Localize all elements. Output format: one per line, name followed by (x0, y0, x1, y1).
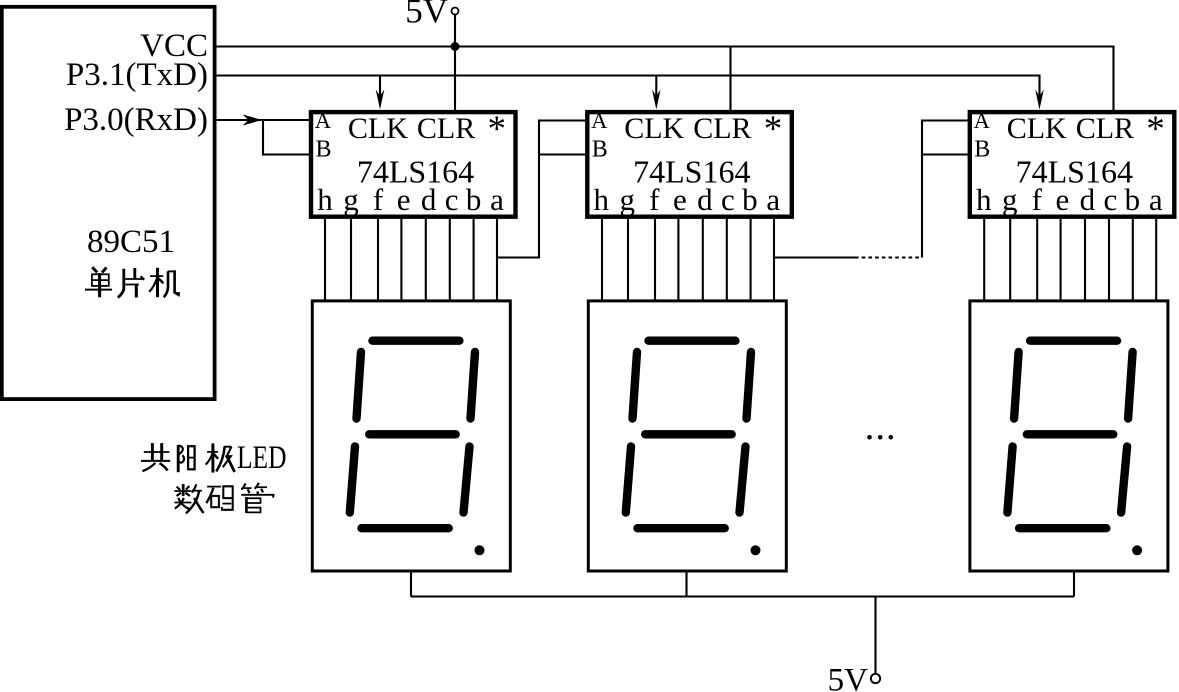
junction 5V/VCC dot (451, 42, 460, 51)
wire U3 output g to display (1009, 218, 1011, 300)
wire 5V top vertical (454, 15, 456, 111)
shift register U1 74LS164 (311, 108, 516, 217)
wire U2 output d to display (702, 218, 704, 300)
wire U2 output b to display (750, 218, 752, 300)
wire U3 output h to display (983, 218, 985, 300)
wire cascade stub to U3 B input (922, 153, 970, 155)
shift register U3 74LS164 (970, 108, 1175, 217)
wire U1 output d to display (425, 218, 427, 300)
hanzi guan (管) of 数码管 (241, 483, 273, 513)
wire U1 output b to display (473, 218, 475, 300)
wire display1 common anode tap (410, 571, 412, 597)
wire P3.1 TxD horizontal (215, 76, 1040, 99)
wire cascade vertical to U3 A input (922, 121, 970, 258)
wire CLR U2 branch (729, 47, 731, 112)
svg-text:P3.0(RxD): P3.0(RxD) (64, 102, 208, 138)
MCU 89C51 box (2, 7, 215, 399)
hanzi yang (阳) of 共阳极LED (178, 445, 194, 472)
terminal 5V top circle (452, 8, 459, 15)
wire display3 common anode tap (1073, 571, 1075, 597)
wire U2 output a to display (773, 218, 775, 300)
wire cascade U1 a to U2 A/B (497, 121, 587, 258)
svg-text:89C51: 89C51 (87, 224, 175, 260)
hanzi gong (共) of 共阳极LED (141, 443, 170, 471)
wire U3 output e to display (1060, 218, 1062, 300)
shift register U2 74LS164 (587, 108, 792, 217)
ellipsis dots between DS2 and DS3 (867, 435, 893, 440)
wire cascade stub to U2 B input (539, 153, 587, 155)
wire U1 output a to display (496, 218, 498, 300)
wire U2 output f to display (654, 218, 656, 300)
wire CLK arrow stub U2 (655, 76, 657, 99)
wire U3 output a to display (1155, 218, 1157, 300)
wire U3 output c to display (1108, 218, 1110, 300)
LED display DS1 (312, 301, 510, 571)
wire U1 output c to display (449, 218, 451, 300)
wire U1 output f to display (377, 218, 379, 300)
terminal 5V bottom circle (871, 674, 880, 683)
wire CLK arrow stub U1 (379, 76, 381, 99)
hanzi ji (机) of 单片机 (149, 268, 179, 297)
wire U3 output d to display (1084, 218, 1086, 300)
arrowhead CLK U2 (652, 90, 661, 110)
hanzi pian (片) of 单片机 (118, 268, 145, 298)
wire P3.0 RxD to A input (215, 119, 310, 121)
arrowhead P3.0 serial (243, 114, 263, 125)
wire cascade U2 a to U3 A/B (part solid part dashed) (774, 256, 855, 258)
wire U2 output e to display (677, 218, 679, 300)
svg-text:5V: 5V (828, 663, 869, 692)
LED display DS3 (970, 301, 1168, 571)
wire U1 output h to display (324, 218, 326, 300)
wire U1 output e to display (400, 218, 402, 300)
wire U3 output b to display (1132, 218, 1134, 300)
svg-text:LED: LED (237, 440, 287, 476)
wire common anode bus (411, 595, 1074, 597)
svg-text:5V: 5V (405, 0, 448, 31)
wire U2 output g to display (627, 218, 629, 300)
wire B input branch U1 (263, 120, 310, 155)
svg-text:P3.1(TxD): P3.1(TxD) (66, 57, 208, 93)
LED display DS2 (588, 301, 786, 571)
hanzi dan (单) of 单片机 (85, 267, 112, 297)
arrowhead CLK U3 (1035, 90, 1044, 110)
arrowhead CLK U1 (376, 90, 385, 110)
hanzi ji2 (极) of 共阳极LED (206, 443, 235, 472)
wire U3 output f to display (1036, 218, 1038, 300)
wire VCC horizontal to CLR of U3 (215, 47, 1114, 112)
hanzi ma (码) of 数码管 (206, 486, 232, 510)
wire U2 output c to display (726, 218, 728, 300)
wire display2 common anode tap (685, 571, 687, 597)
hanzi shu (数) of 数码管 (174, 484, 203, 513)
wire bottom 5V vertical (874, 597, 876, 674)
wire U1 output g to display (350, 218, 352, 300)
wire U2 output h to display (601, 218, 603, 300)
